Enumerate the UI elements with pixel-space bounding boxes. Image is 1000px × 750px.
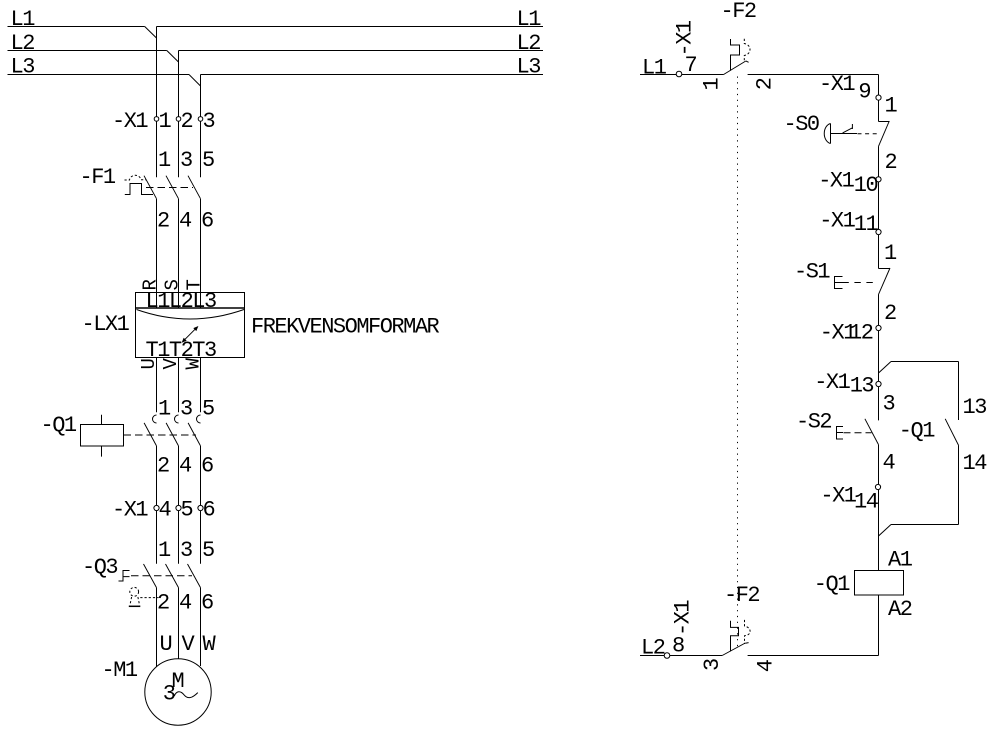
breaker F2 mechanical linkage dotted <box>737 77 739 649</box>
svg-text:L2: L2 <box>641 636 665 661</box>
svg-text:2: 2 <box>885 150 897 175</box>
svg-text:3: 3 <box>163 682 175 707</box>
wire L3 bus <box>8 55 544 86</box>
svg-text:-F2: -F2 <box>721 0 756 24</box>
pushbutton S1 blade <box>879 268 891 294</box>
coil Q1 box <box>855 571 904 596</box>
wire L2 bus <box>8 31 544 62</box>
terminal X1:8 circle <box>664 653 670 659</box>
breaker F1 pole1 blade <box>144 176 157 199</box>
wire phase3 F1 to LX1 <box>200 199 202 308</box>
wire 14 to coil <box>878 490 880 571</box>
terminal X1:14 <box>820 483 880 514</box>
wire phase1 vertical upper <box>156 27 158 178</box>
terminal X1:10 <box>818 169 881 198</box>
terminal X1:13 <box>814 370 881 399</box>
contactor Q1 coil stub bottom <box>101 446 103 457</box>
svg-text:5: 5 <box>202 538 214 563</box>
motor breaker Q3 thermal trip body <box>130 597 140 605</box>
svg-text:-M1: -M1 <box>102 658 138 683</box>
contactor Q1 pole3 contact arc <box>197 415 201 423</box>
breaker F2 pole1 thermal element <box>731 39 740 71</box>
svg-text:-X1: -X1 <box>820 483 856 508</box>
motor breaker Q3 pole2 blade <box>166 564 179 588</box>
svg-text:1: 1 <box>700 78 725 91</box>
breaker F1 thermal element <box>125 184 153 195</box>
wire phase3 vertical upper <box>200 75 202 178</box>
LX1 inner separator line <box>136 307 245 309</box>
wire 9 to S0 <box>878 100 880 121</box>
svg-text:-X1: -X1 <box>819 208 855 233</box>
svg-text:5: 5 <box>202 148 214 173</box>
svg-text:-S2: -S2 <box>796 410 831 435</box>
svg-text:L1: L1 <box>517 7 542 32</box>
breaker F2 pole1 blade <box>724 61 746 75</box>
svg-text:1: 1 <box>158 397 171 422</box>
svg-text:3: 3 <box>883 392 895 417</box>
svg-text:4: 4 <box>179 590 192 615</box>
motor M1 circle <box>145 659 211 725</box>
wire phase2 Q1 to Q3 <box>178 446 180 564</box>
svg-text:1: 1 <box>158 148 171 173</box>
svg-text:1: 1 <box>159 109 172 134</box>
pushbutton S0 mushroom actuator <box>824 124 830 144</box>
svg-text:4: 4 <box>754 659 779 672</box>
breaker F2 pole2 thermal element <box>731 621 739 652</box>
contactor Q1 linkage dashed <box>124 434 197 436</box>
wire phase2 F1 to LX1 <box>178 199 180 308</box>
svg-text:4: 4 <box>179 209 192 234</box>
svg-text:8: 8 <box>672 634 684 659</box>
svg-text:L1: L1 <box>11 7 36 32</box>
terminal X1:11 <box>819 208 881 236</box>
breaker F1 linkage dashed <box>146 187 193 189</box>
terminal X1:7 circle <box>676 71 682 77</box>
wire S1 to X1:12 <box>878 294 880 325</box>
svg-text:1: 1 <box>884 241 897 266</box>
svg-text:-X1: -X1 <box>819 72 855 97</box>
terminal X1:6 <box>198 497 215 522</box>
svg-text:4: 4 <box>883 451 896 476</box>
svg-text:L1: L1 <box>642 56 667 81</box>
pushbutton S1 actuator E <box>835 277 843 289</box>
svg-text:4: 4 <box>179 454 192 479</box>
wire phase3 Q1 to Q3 <box>200 446 202 564</box>
svg-text:-X1: -X1 <box>112 497 148 522</box>
svg-text:2: 2 <box>884 301 896 326</box>
svg-text:3: 3 <box>180 538 192 563</box>
svg-text:5: 5 <box>181 497 193 522</box>
svg-text:A1: A1 <box>888 548 913 573</box>
svg-text:-S1: -S1 <box>794 260 830 285</box>
contactor Q1 pole1 blade <box>144 423 156 446</box>
wire phase3 Q3 to motor <box>200 588 202 666</box>
svg-text:-X1: -X1 <box>671 600 696 636</box>
wire phase1 F1 to LX1 <box>156 199 158 308</box>
wire phase2 Q3 to motor <box>178 588 180 659</box>
svg-text:5: 5 <box>202 397 214 422</box>
svg-text:W: W <box>203 632 217 657</box>
wire bottom rail right <box>748 655 879 657</box>
contactor Q1 pole2 contact arc <box>175 415 179 423</box>
svg-text:-X1: -X1 <box>112 109 148 134</box>
svg-text:14: 14 <box>854 490 879 515</box>
wire phase2 vertical upper <box>178 51 180 178</box>
breaker F2 pole1 magnetic release dashed <box>744 39 750 62</box>
svg-text:14: 14 <box>963 451 988 476</box>
wire coil to bottom rail <box>878 595 880 656</box>
pushbutton S1 fixed contact tick <box>879 268 891 270</box>
breaker F2 pole2 magnetic release dashed <box>745 620 751 644</box>
motor M1 sine wave <box>174 692 198 698</box>
svg-text:9: 9 <box>858 80 870 105</box>
svg-text:3: 3 <box>180 148 192 173</box>
svg-text:-S0: -S0 <box>784 112 819 137</box>
motor breaker Q3 pole3 blade <box>188 564 201 588</box>
wire phase1 LX1 to Q1 <box>156 358 158 413</box>
breaker F1 pole3 blade <box>188 176 201 199</box>
frequency converter LX1 box <box>136 293 245 358</box>
wire L3 tap diagonal <box>189 75 201 87</box>
wire 11 to S1 <box>878 235 880 269</box>
terminal X1:9 <box>819 72 881 105</box>
motor breaker Q3 thermal trip circle <box>130 587 139 596</box>
svg-text:1: 1 <box>158 538 171 563</box>
wire phase1 Q3 to motor <box>156 588 158 667</box>
pushbutton S2 blade <box>865 419 879 445</box>
svg-text:2: 2 <box>157 454 169 479</box>
svg-text:2: 2 <box>752 78 777 90</box>
svg-text:6: 6 <box>201 454 213 479</box>
svg-text:13: 13 <box>963 395 987 420</box>
wire branch tap diagonal top <box>879 362 892 374</box>
pushbutton S1 linkage dashed <box>842 282 878 284</box>
contact Q1 aux blade <box>945 419 959 446</box>
pushbutton S0 actuator rod <box>831 133 858 135</box>
svg-text:-LX1: -LX1 <box>82 312 130 337</box>
breaker F1 pole2 blade <box>166 176 179 199</box>
svg-text:3: 3 <box>180 397 192 422</box>
contactor Q1 coil stub top <box>101 415 103 425</box>
svg-text:A2: A2 <box>888 597 912 622</box>
svg-text:13: 13 <box>850 374 874 399</box>
svg-text:10: 10 <box>854 173 878 198</box>
wire branch vertical lower <box>958 446 960 525</box>
svg-text:L2: L2 <box>11 31 35 56</box>
svg-text:-Q1: -Q1 <box>814 572 850 597</box>
svg-text:FREKVENSOMFORMAR: FREKVENSOMFORMAR <box>251 315 440 340</box>
svg-text:-Q1: -Q1 <box>41 413 77 438</box>
wire L2 tap diagonal <box>167 51 179 63</box>
svg-text:1: 1 <box>885 94 898 119</box>
svg-text:3: 3 <box>203 109 215 134</box>
svg-text:-F2: -F2 <box>724 583 759 608</box>
terminal X1:3 <box>198 109 214 134</box>
svg-text:6: 6 <box>201 590 213 615</box>
svg-text:6: 6 <box>201 209 213 234</box>
LX1 sag curve <box>137 310 245 320</box>
wire 10 to 11 <box>878 182 880 230</box>
svg-text:-F1: -F1 <box>80 165 116 190</box>
svg-text:2: 2 <box>157 209 169 234</box>
svg-text:L3: L3 <box>517 55 541 80</box>
wire phase1 Q1 to Q3 <box>156 446 158 564</box>
breaker F2 pole1 blade tick <box>746 61 749 62</box>
pushbutton S2 actuator E <box>837 427 844 440</box>
svg-text:12: 12 <box>849 321 873 346</box>
wire branch tap diagonal bottom <box>879 525 892 537</box>
svg-text:-Q1: -Q1 <box>899 419 935 444</box>
svg-text:L1L2L3: L1L2L3 <box>146 289 217 314</box>
terminal X1:5 <box>176 497 193 522</box>
svg-text:U: U <box>160 632 172 657</box>
pushbutton S0 fixed contact tick <box>879 121 890 123</box>
LX1 variable arrow <box>182 326 199 343</box>
wire L1 to F2 <box>640 74 724 76</box>
motor breaker Q3 thermal trip base <box>129 605 141 607</box>
svg-text:-X1: -X1 <box>818 169 854 194</box>
svg-text:V: V <box>182 632 196 657</box>
svg-text:4: 4 <box>159 497 172 522</box>
wire 12 to 13 <box>878 331 880 382</box>
svg-text:L2: L2 <box>517 31 541 56</box>
svg-text:-X1: -X1 <box>673 20 698 56</box>
svg-text:L3: L3 <box>11 55 35 80</box>
contactor Q1 pole1 contact arc <box>153 415 157 423</box>
wire S0 to X1:10 <box>878 146 880 176</box>
terminal X1:1 <box>154 109 171 134</box>
terminal X1:2 <box>176 109 192 134</box>
wire phase2 LX1 to Q1 <box>178 358 180 413</box>
wire bottom rail left <box>640 655 722 657</box>
wire L1 bus <box>8 7 544 38</box>
svg-text:11: 11 <box>854 212 879 237</box>
wire F2 to corner <box>748 74 879 76</box>
wire L1 tap diagonal <box>145 27 157 39</box>
pushbutton S0 blade <box>879 121 890 146</box>
wire 13 to S2 <box>878 387 880 421</box>
svg-text:-Q3: -Q3 <box>82 555 117 580</box>
motor breaker Q3 handle <box>119 571 130 582</box>
wire branch vertical upper <box>958 362 960 421</box>
svg-text:2: 2 <box>181 109 193 134</box>
pushbutton S0 latch symbol <box>843 124 853 133</box>
terminal X1:12 <box>820 321 881 346</box>
wire control main drop top <box>878 75 880 96</box>
svg-text:6: 6 <box>203 497 215 522</box>
wire S2 to X1:14 <box>878 445 880 485</box>
svg-text:3: 3 <box>700 659 725 671</box>
motor breaker Q3 linkage dashed <box>131 575 192 577</box>
pushbutton S0 linkage dashed <box>858 133 878 135</box>
pushbutton S2 linkage dashed <box>844 432 872 434</box>
motor breaker Q3 pole1 blade <box>144 564 157 588</box>
terminal X1:4 <box>154 497 172 522</box>
svg-text:2: 2 <box>157 590 169 615</box>
breaker F2 pole2 blade tick <box>745 642 748 645</box>
wire phase3 LX1 to Q1 <box>200 358 202 413</box>
breaker F2 pole2 blade <box>722 643 745 656</box>
svg-text:-X1: -X1 <box>814 370 850 395</box>
wire branch horizontal bottom <box>891 524 959 526</box>
wire branch horizontal top <box>891 361 959 363</box>
motor breaker Q3 thermal trip linkage <box>140 597 158 599</box>
breaker F1 trip linkage arc <box>125 175 147 180</box>
contactor Q1 pole3 blade <box>188 423 200 446</box>
contactor Q1 pole2 blade <box>166 423 178 446</box>
contactor Q1 coil box <box>81 425 124 447</box>
